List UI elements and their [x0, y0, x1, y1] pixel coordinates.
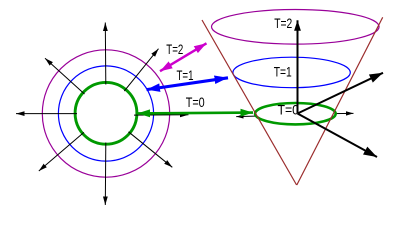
- blue connector arrow T=1: [147, 78, 229, 90]
- blue circle (level T=1, left diagram): [58, 66, 153, 161]
- magenta connector arrow T=2: [160, 43, 207, 71]
- svg-text:T=0: T=0: [278, 102, 300, 117]
- radial arrow lower-right: [129, 132, 173, 168]
- purple ellipse T=2 (cone top): [211, 10, 379, 45]
- svg-text:T=1: T=1: [274, 64, 292, 79]
- green ellipse T=0 (cone bottom): [255, 103, 336, 124]
- axis arrow upper-right (3D): [298, 73, 384, 114]
- svg-text:T=0: T=0: [186, 95, 205, 110]
- radial arrow upper-right: [124, 49, 158, 91]
- cone left edge: [202, 20, 297, 185]
- radial arrow upper-left: [45, 58, 85, 94]
- green circle (level T=0, left diagram): [75, 82, 137, 144]
- cone right edge: [297, 17, 383, 185]
- svg-text:T=1: T=1: [177, 68, 194, 83]
- blue ellipse T=1 (cone middle): [233, 57, 350, 88]
- radial arrow down: [104, 143, 107, 206]
- green connector arrow T=0: [138, 111, 254, 114]
- svg-text:T=2: T=2: [274, 16, 292, 31]
- radial arrow left: [16, 113, 77, 115]
- svg-text:T=2: T=2: [166, 42, 183, 57]
- purple circle (level T=2, left diagram): [42, 50, 169, 177]
- radial arrow up: [104, 23, 107, 85]
- axis arrow lower-right (3D): [298, 114, 378, 158]
- z axis arrow (vertical, cone): [297, 20, 299, 113]
- radial arrow lower-left: [39, 132, 84, 171]
- small axis arrow left (thin, from origin, hidden behind green ellipse): [236, 115, 297, 116]
- radial arrow right (under green connector): [134, 114, 189, 116]
- small axis arrow right (thin): [298, 112, 354, 115]
